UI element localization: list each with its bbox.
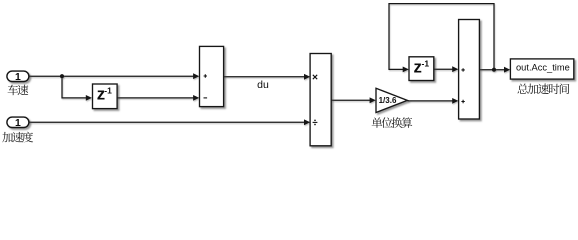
svg-text:1/3.6: 1/3.6 (379, 96, 397, 105)
svg-text:du: du (257, 79, 269, 91)
svg-text:1: 1 (15, 118, 21, 129)
svg-text:-1: -1 (104, 86, 112, 96)
svg-text:out.Acc_time: out.Acc_time (516, 63, 570, 73)
svg-text:-1: -1 (422, 58, 430, 68)
svg-text:1: 1 (15, 72, 21, 83)
